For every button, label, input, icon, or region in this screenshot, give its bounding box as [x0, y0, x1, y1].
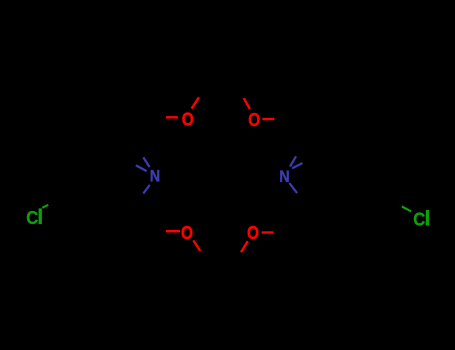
bond Cl-C (right)	[402, 207, 411, 212]
bond CH2-O (bottom-right diagonal)	[241, 241, 248, 252]
bond O-CH2 (bottom-right horizontal)	[262, 231, 274, 233]
bond N-C3' (right, lower)	[289, 183, 297, 193]
bond Cl-C (left)	[42, 205, 48, 208]
svg-text:O: O	[248, 110, 260, 130]
bond C1'-N (right, upper steep)	[290, 156, 296, 166]
bond O-CH2 (bottom-left diagonal)	[193, 240, 200, 251]
bond CH2-O (bottom-left horizontal)	[166, 230, 180, 232]
bond C1-N (left, upper steep)	[143, 157, 149, 167]
svg-text:Cl: Cl	[26, 205, 43, 229]
svg-text:N: N	[279, 167, 289, 186]
bond C-N (left, upper shallow)	[136, 165, 147, 171]
svg-text:N: N	[150, 167, 160, 186]
bond O-CH2 (top-right horizontal)	[262, 118, 274, 120]
bond C-N (right, upper shallow)	[292, 163, 302, 168]
bond CH2-O (top-right diagonal)	[244, 98, 250, 109]
svg-text:O: O	[182, 109, 194, 129]
svg-text:Cl: Cl	[413, 207, 430, 231]
bond O-CH2 (top-left diagonal)	[192, 97, 199, 108]
svg-text:O: O	[247, 223, 259, 243]
bond N-C3 (left, lower)	[143, 185, 149, 194]
svg-text:O: O	[181, 223, 193, 243]
bond CH2-O (top-left horizontal)	[166, 116, 178, 118]
